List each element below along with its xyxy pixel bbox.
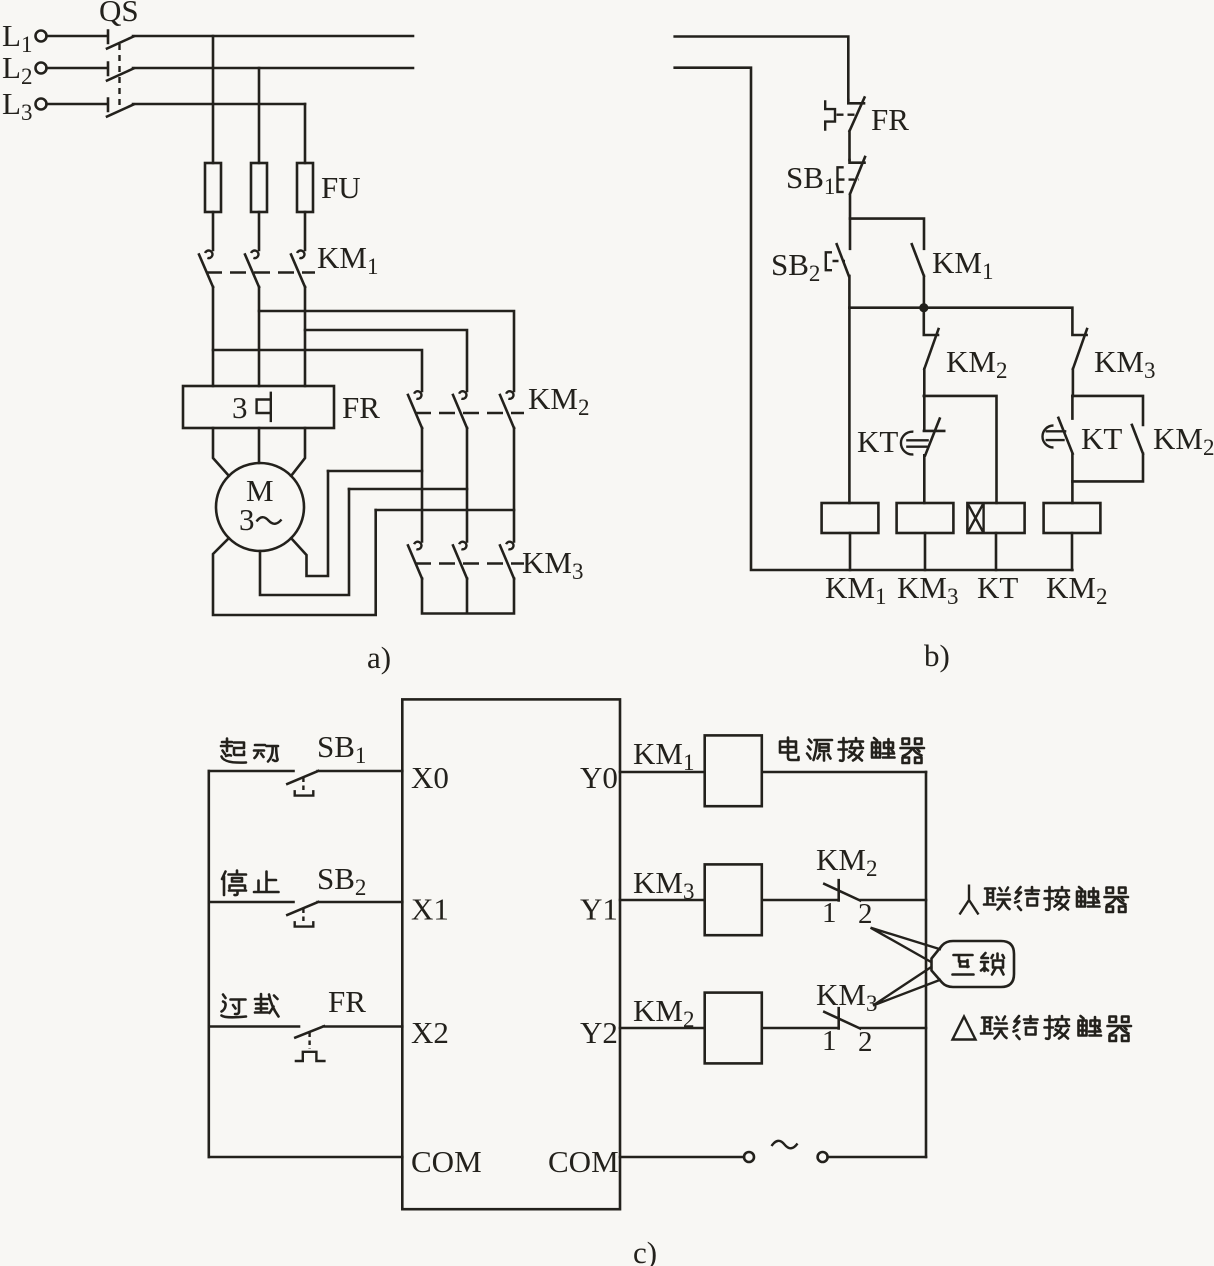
svg-text:2: 2 — [858, 898, 873, 930]
svg-text:X1: X1 — [411, 892, 449, 927]
svg-text:QS: QS — [99, 0, 139, 28]
svg-text:Y2: Y2 — [580, 1015, 618, 1050]
svg-text:KT: KT — [857, 424, 898, 459]
svg-text:FR: FR — [871, 102, 909, 137]
svg-text:b): b) — [924, 638, 950, 673]
svg-text:a): a) — [367, 640, 391, 675]
svg-text:Y0: Y0 — [580, 760, 618, 795]
svg-text:c): c) — [633, 1235, 657, 1266]
svg-text:FR: FR — [328, 984, 366, 1019]
svg-text:1: 1 — [822, 1025, 837, 1057]
svg-text:X2: X2 — [411, 1015, 449, 1050]
svg-text:1: 1 — [822, 897, 837, 929]
svg-text:Y1: Y1 — [580, 892, 618, 927]
svg-text:FU: FU — [321, 170, 361, 205]
svg-text:FR: FR — [342, 390, 380, 425]
svg-text:2: 2 — [858, 1026, 873, 1058]
svg-text:X0: X0 — [411, 760, 449, 795]
svg-text:3: 3 — [239, 502, 255, 537]
svg-text:3: 3 — [232, 390, 248, 425]
svg-text:COM: COM — [411, 1144, 482, 1179]
svg-text:COM: COM — [548, 1144, 619, 1179]
svg-text:KT: KT — [977, 570, 1018, 605]
svg-text:KT: KT — [1081, 421, 1122, 456]
